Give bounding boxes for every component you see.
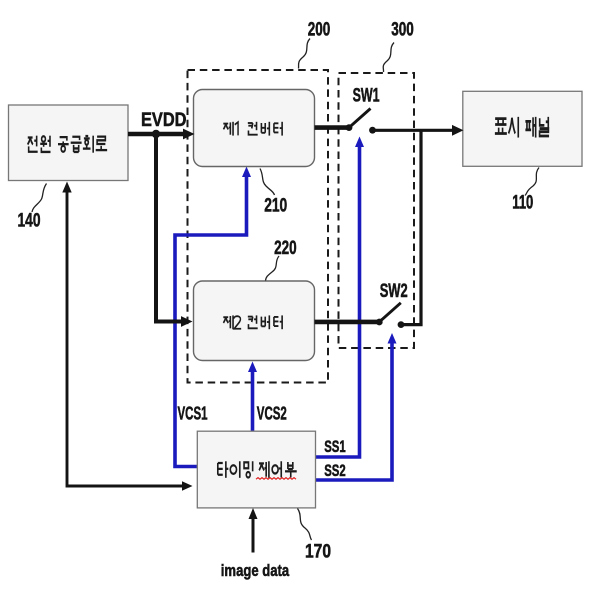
wire converter2 output to SW2 bbox=[315, 320, 380, 325]
svg-text:220: 220 bbox=[274, 238, 297, 259]
box 210 converter1 제1 컨버터 bbox=[194, 90, 315, 167]
wire EVDD: power to converter1 bbox=[67, 109, 455, 553]
wire SS2 (blue) bbox=[316, 340, 393, 480]
switch SW1 contact dots bbox=[346, 124, 353, 131]
leader squiggle 170 bbox=[298, 509, 312, 541]
text 전원 공급회로 (power supply circuit) bbox=[28, 136, 108, 153]
svg-text:210: 210 bbox=[264, 196, 287, 217]
arrowhead into display panel bbox=[452, 125, 464, 136]
wire SW1 to display panel bbox=[373, 129, 456, 132]
arrowhead image data into timing controller bbox=[249, 508, 258, 519]
arrowhead VCS1 bbox=[242, 167, 251, 178]
arrowhead into converter2 bbox=[181, 316, 193, 327]
switch SW2 contact dots bbox=[376, 319, 383, 326]
svg-text:200: 200 bbox=[308, 20, 331, 41]
svg-text:170: 170 bbox=[305, 542, 331, 563]
arrowhead into timing controller bbox=[182, 481, 193, 491]
svg-text:EVDD: EVDD bbox=[141, 110, 187, 131]
svg-text:SS1: SS1 bbox=[324, 437, 346, 456]
wire power supply to timing controller bbox=[67, 189, 184, 486]
svg-text:image data: image data bbox=[221, 561, 290, 580]
svg-text:140: 140 bbox=[18, 211, 41, 232]
text 제2 컨버터 (converter 2) bbox=[223, 315, 282, 329]
arrowhead SS1 bbox=[355, 137, 364, 148]
wire EVDD branch down to converter2 bbox=[156, 134, 184, 322]
wire SW2 output riser bbox=[401, 130, 421, 324]
arrowhead up into power supply bbox=[62, 182, 71, 193]
svg-text:SW2: SW2 bbox=[380, 281, 408, 302]
switch SW1 lever bbox=[349, 109, 371, 128]
box 110 display panel 표시 패널 bbox=[463, 91, 582, 166]
red spellcheck squiggle under 제어부 bbox=[256, 478, 296, 480]
leader squiggle 200 bbox=[299, 39, 311, 69]
leader squiggle 220 bbox=[266, 256, 280, 281]
svg-text:VCS2: VCS2 bbox=[257, 404, 287, 424]
wire image data input bbox=[252, 513, 255, 553]
arrowhead EVDD into converter1 bbox=[183, 129, 195, 140]
dashed region 300 bbox=[339, 73, 415, 348]
svg-text:SW1: SW1 bbox=[353, 85, 380, 106]
text 표시 패널 (display panel) bbox=[495, 117, 549, 138]
svg-text:SS2: SS2 bbox=[324, 461, 346, 480]
switch SW2 lever bbox=[379, 303, 401, 322]
svg-text:VCS1: VCS1 bbox=[178, 404, 208, 424]
dashed region 200 bbox=[188, 70, 329, 383]
wire VCS1 (blue) bbox=[175, 143, 392, 480]
leader squiggle 300 bbox=[383, 43, 394, 73]
text 제1 컨버터 (converter 1) bbox=[223, 122, 282, 136]
leader squiggle 140 bbox=[32, 184, 47, 213]
arrowhead VCS2 bbox=[248, 362, 257, 373]
leader squiggle 110 bbox=[525, 168, 539, 196]
wire converter1 output to SW1 bbox=[315, 125, 350, 130]
wire VCS2 (blue) bbox=[251, 369, 255, 431]
box 220 converter2 제2 컨버터 bbox=[194, 281, 315, 361]
leader squiggle 210 bbox=[260, 169, 275, 196]
arrowhead SS2 bbox=[388, 333, 397, 344]
box 170 timing controller 타이밍 제어부 bbox=[197, 431, 315, 508]
wire SS1 (blue) bbox=[316, 143, 360, 457]
text 타이밍 제어부 (timing controller) bbox=[218, 461, 297, 478]
junction dot EVDD bbox=[152, 130, 160, 138]
svg-text:300: 300 bbox=[391, 20, 414, 41]
svg-text:110: 110 bbox=[512, 192, 533, 213]
box 140 power supply 전원 공급회로 bbox=[9, 105, 129, 181]
